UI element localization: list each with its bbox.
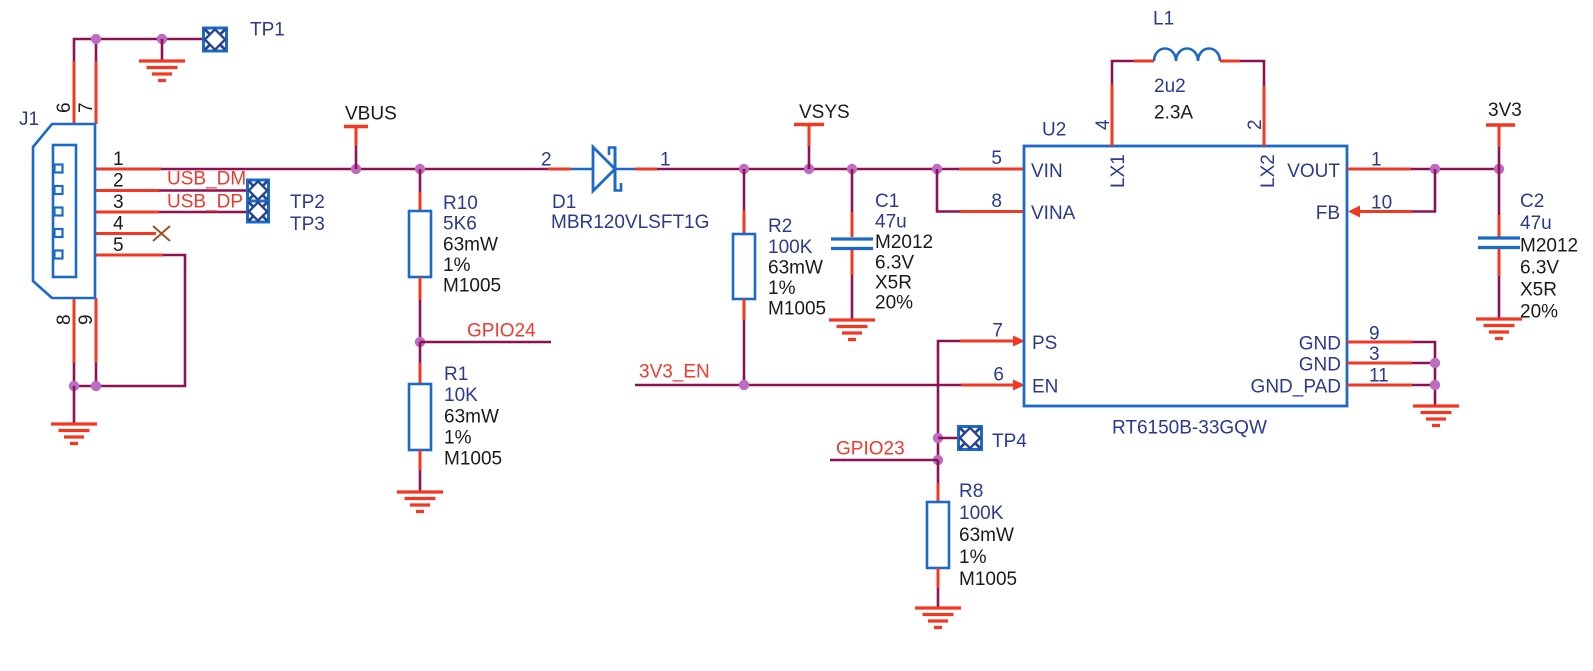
ground below J1 xyxy=(51,424,97,444)
pin number 2 J1 xyxy=(113,171,124,192)
net label VSYS xyxy=(799,102,850,123)
power flag 3V3 xyxy=(1486,125,1515,169)
svg-text:R8: R8 xyxy=(959,481,983,502)
svg-text:63mW: 63mW xyxy=(443,235,498,256)
value R1 M1005 xyxy=(444,449,502,470)
svg-text:4: 4 xyxy=(1093,119,1114,130)
pin 2 lead D1 xyxy=(548,168,571,171)
wire USB_DM to TP2 xyxy=(159,189,247,192)
wire R2 to 3V3_EN xyxy=(743,320,746,385)
wire R1 top segment xyxy=(419,342,422,363)
power flag VSYS xyxy=(794,125,824,170)
svg-text:3V3_EN: 3V3_EN xyxy=(639,362,710,383)
testpoint TP4 xyxy=(959,427,982,450)
net label 3V3 xyxy=(1488,100,1522,121)
pin number 1 U2 xyxy=(1371,150,1382,171)
label C2 xyxy=(1520,191,1544,212)
node junction TP1 ground tap xyxy=(157,34,167,44)
pin number 4 U2 xyxy=(1093,119,1114,130)
svg-text:8: 8 xyxy=(54,314,75,325)
value R10 5K6 xyxy=(443,214,477,235)
svg-text:63mW: 63mW xyxy=(959,525,1014,546)
pin 2 lead J1 xyxy=(96,189,159,192)
wire R10 top segment xyxy=(419,169,422,192)
wire LX1 to L1 xyxy=(1112,61,1134,84)
node junction GPIO23 xyxy=(933,455,943,465)
svg-text:MBR120VLSFT1G: MBR120VLSFT1G xyxy=(551,212,709,233)
svg-text:X5R: X5R xyxy=(875,273,912,294)
svg-text:5: 5 xyxy=(991,148,1002,169)
wire EN down to TP4/GPIO23 xyxy=(937,385,940,460)
pin name EN xyxy=(1032,377,1058,398)
value R2 M1005 xyxy=(768,299,826,320)
svg-text:6.3V: 6.3V xyxy=(875,253,914,274)
svg-text:M1005: M1005 xyxy=(443,276,501,297)
ground below R8 xyxy=(915,608,961,628)
node junction R2 top xyxy=(739,164,749,174)
pin 5 lead J1 xyxy=(96,254,163,257)
svg-text:2.3A: 2.3A xyxy=(1154,103,1193,124)
svg-text:9: 9 xyxy=(76,314,97,325)
ground below C1 xyxy=(829,320,875,340)
svg-text:VBUS: VBUS xyxy=(345,104,397,125)
net label GPIO24 xyxy=(467,321,536,342)
pin number 8 U2 xyxy=(991,191,1002,212)
svg-text:2u2: 2u2 xyxy=(1154,76,1186,97)
pin 7 lead U2 PS with arrow xyxy=(960,336,1025,347)
node junction GND pin11 xyxy=(1430,380,1440,390)
svg-text:100K: 100K xyxy=(959,503,1004,524)
net label VBUS xyxy=(345,104,397,125)
svg-text:C1: C1 xyxy=(875,191,899,212)
testpoint TP2 xyxy=(248,180,269,201)
pin number 1 J1 xyxy=(113,149,124,170)
net label USB_DM xyxy=(167,169,246,190)
pin name LX1 xyxy=(1108,154,1129,188)
svg-text:PS: PS xyxy=(1032,333,1057,354)
svg-text:4: 4 xyxy=(113,214,124,235)
pin lead C2 bottom xyxy=(1498,249,1501,276)
value D1 MBR120VLSFT1G xyxy=(551,212,709,233)
svg-text:USB_DP: USB_DP xyxy=(167,192,243,213)
node junction FB tap xyxy=(1430,164,1440,174)
value R10 M1005 xyxy=(443,276,501,297)
pin number 11 U2 xyxy=(1369,366,1389,387)
pin lead L1 right xyxy=(1220,60,1240,63)
svg-text:LX1: LX1 xyxy=(1108,154,1129,188)
resistor R10 xyxy=(409,211,431,277)
svg-text:M2012: M2012 xyxy=(1520,236,1578,257)
svg-text:GPIO23: GPIO23 xyxy=(836,439,905,460)
pin number 3 U2 xyxy=(1369,344,1380,365)
svg-text:EN: EN xyxy=(1032,377,1058,398)
value C2 47u xyxy=(1520,213,1552,234)
net label 3V3_EN xyxy=(639,362,710,383)
node junction TP4 xyxy=(933,433,943,443)
pin 1 lead D1 xyxy=(635,168,657,171)
svg-text:TP2: TP2 xyxy=(290,192,325,213)
pin 4 lead J1 xyxy=(96,232,156,235)
svg-text:VSYS: VSYS xyxy=(799,102,850,123)
svg-text:1%: 1% xyxy=(768,278,796,299)
svg-text:2: 2 xyxy=(541,150,552,171)
svg-text:GPIO24: GPIO24 xyxy=(467,321,536,342)
value R10 63mW xyxy=(443,235,498,256)
value C2 6.3V xyxy=(1520,258,1559,279)
capacitor C1 xyxy=(831,239,873,249)
value R8 63mW xyxy=(959,525,1014,546)
testpoint TP1 xyxy=(204,28,227,51)
label TP4 xyxy=(992,431,1027,452)
connector J1 body xyxy=(33,124,95,298)
value U2 RT6150B-33GQW xyxy=(1112,418,1267,439)
pin 4 lead U2 LX1 xyxy=(1111,84,1114,146)
pin lead C1 bottom xyxy=(851,250,854,275)
svg-text:TP3: TP3 xyxy=(290,214,325,235)
svg-text:LX2: LX2 xyxy=(1258,154,1279,188)
svg-text:VOUT: VOUT xyxy=(1287,161,1340,182)
svg-text:6: 6 xyxy=(54,102,75,113)
pin name GND 9 xyxy=(1299,334,1341,355)
wire VOUT to 3V3 xyxy=(1411,168,1499,171)
value L1 2.3A xyxy=(1154,103,1193,124)
wire C2 top segment xyxy=(1498,169,1501,215)
svg-text:3: 3 xyxy=(1369,344,1380,365)
pin number 3 J1 xyxy=(113,192,124,213)
svg-text:R1: R1 xyxy=(444,364,468,385)
svg-text:VIN: VIN xyxy=(1031,161,1063,182)
value L1 2u2 xyxy=(1154,76,1186,97)
label D1 xyxy=(552,192,576,213)
ground below U2 GND pins xyxy=(1413,406,1459,426)
pin 2 lead U2 LX2 xyxy=(1263,86,1266,146)
pin 8 lead U2 VINA xyxy=(960,210,1024,213)
pin 8 lead J1 xyxy=(73,298,76,363)
pin number 5 U2 xyxy=(991,148,1002,169)
pin 6 lead U2 EN with arrow xyxy=(961,380,1025,391)
svg-text:63mW: 63mW xyxy=(768,258,823,279)
svg-text:3V3: 3V3 xyxy=(1488,100,1522,121)
connector J1 contact pads xyxy=(55,165,63,259)
pin lead R10 bottom xyxy=(419,277,422,300)
svg-text:47u: 47u xyxy=(1520,213,1552,234)
pin 1 lead J1 xyxy=(96,168,161,171)
pin name GND_PAD xyxy=(1251,377,1341,398)
pin lead R1 top xyxy=(419,363,422,385)
pin number 2 U2 xyxy=(1245,119,1266,130)
wire R10 to GPIO24 node xyxy=(419,300,422,342)
value C2 M2012 xyxy=(1520,236,1578,257)
svg-text:TP1: TP1 xyxy=(250,20,285,41)
wire C1 to ground xyxy=(851,275,854,320)
value R8 1% xyxy=(959,547,987,568)
node junction VBUS stub xyxy=(351,164,361,174)
svg-text:M1005: M1005 xyxy=(768,299,826,320)
svg-text:1: 1 xyxy=(660,150,671,171)
svg-text:7: 7 xyxy=(76,102,97,113)
svg-text:RT6150B-33GQW: RT6150B-33GQW xyxy=(1112,418,1267,439)
wire PS branch xyxy=(938,341,960,385)
svg-text:TP4: TP4 xyxy=(992,431,1027,452)
wire R8 to ground xyxy=(937,588,940,608)
value C2 20% xyxy=(1520,302,1558,323)
value C1 X5R xyxy=(875,273,912,294)
svg-text:M1005: M1005 xyxy=(959,569,1017,590)
no-connect cross on pin 4 xyxy=(153,226,170,241)
pin name LX2 xyxy=(1258,154,1279,188)
pin number 5 J1 xyxy=(113,235,124,256)
svg-text:L1: L1 xyxy=(1153,9,1174,30)
pin name VINA xyxy=(1031,203,1076,224)
pin 3 lead J1 xyxy=(96,211,159,214)
ground below R1 xyxy=(397,492,443,512)
resistor R8 xyxy=(927,502,949,568)
label R1 xyxy=(444,364,468,385)
value R1 63mW xyxy=(444,407,499,428)
label L1 xyxy=(1153,9,1174,30)
label TP1 xyxy=(250,20,285,41)
wire GPIO24 label stub xyxy=(420,341,551,344)
wire R8 top segment xyxy=(937,460,940,483)
svg-text:GND: GND xyxy=(1299,334,1341,355)
svg-text:2: 2 xyxy=(113,171,124,192)
node junction GPIO24 xyxy=(415,337,425,347)
pin number 6 U2 xyxy=(993,365,1004,386)
pin number 1 D1 xyxy=(660,150,671,171)
svg-text:R10: R10 xyxy=(443,193,478,214)
pin lead R2 top xyxy=(743,210,746,235)
svg-text:11: 11 xyxy=(1369,366,1389,387)
pin 5 lead U2 VIN xyxy=(959,168,1024,171)
pin name FB xyxy=(1316,203,1340,224)
pin 6 lead J1 xyxy=(73,61,76,124)
value C2 X5R xyxy=(1520,280,1557,301)
power flag VBUS xyxy=(344,127,368,170)
pin number 2 D1 xyxy=(541,150,552,171)
label U2 xyxy=(1042,120,1066,141)
node junction VIN branch xyxy=(932,164,942,174)
svg-text:47u: 47u xyxy=(875,212,907,233)
net label USB_DP xyxy=(167,192,243,213)
net label GPIO23 xyxy=(836,439,905,460)
wire GPIO23 label stub xyxy=(830,459,938,462)
svg-text:FB: FB xyxy=(1316,203,1340,224)
svg-text:M2012: M2012 xyxy=(875,232,933,253)
svg-text:63mW: 63mW xyxy=(444,407,499,428)
wire C1 top segment xyxy=(851,169,854,212)
value C1 47u xyxy=(875,212,907,233)
svg-text:1%: 1% xyxy=(959,547,987,568)
pin number 7 U2 xyxy=(992,321,1003,342)
wire FB loop xyxy=(1412,169,1435,212)
wire pin9 lower segment xyxy=(95,363,98,386)
pin number 9 J1 xyxy=(76,314,97,325)
wire LX2 to L1 xyxy=(1240,61,1264,86)
pin number 7 J1 xyxy=(76,102,97,113)
wire VBUS net top-left (J1 pins 6,7 to TP1) xyxy=(74,39,203,62)
wire USB_DP to TP3 xyxy=(159,211,247,214)
svg-text:6: 6 xyxy=(993,365,1004,386)
label J1 xyxy=(19,109,39,130)
svg-text:C2: C2 xyxy=(1520,191,1544,212)
svg-text:9: 9 xyxy=(1369,324,1380,345)
wire 3V3_EN net xyxy=(635,384,961,387)
pin name GND 3 xyxy=(1299,355,1341,376)
svg-text:VINA: VINA xyxy=(1031,203,1076,224)
svg-text:10: 10 xyxy=(1371,193,1392,214)
svg-text:R2: R2 xyxy=(768,216,792,237)
svg-text:10K: 10K xyxy=(444,385,478,406)
svg-text:5: 5 xyxy=(113,235,124,256)
wire ground stub below J1 xyxy=(73,386,76,424)
wire bottom loop from J1 pin5 xyxy=(74,255,185,386)
wire main VBUS bus xyxy=(161,168,548,171)
node junction pin8/ground xyxy=(69,381,79,391)
svg-text:2: 2 xyxy=(1245,119,1266,130)
value R10 1% xyxy=(443,255,471,276)
svg-text:M1005: M1005 xyxy=(444,449,502,470)
svg-text:6.3V: 6.3V xyxy=(1520,258,1559,279)
svg-text:D1: D1 xyxy=(552,192,576,213)
value R2 1% xyxy=(768,278,796,299)
resistor R2 xyxy=(733,234,755,299)
node junction pin9/loop xyxy=(91,381,101,391)
pin lead L1 left xyxy=(1134,60,1154,63)
wire R2 top segment xyxy=(743,169,746,210)
svg-text:USB_DM: USB_DM xyxy=(167,169,246,190)
pin 7 lead J1 xyxy=(95,61,98,124)
ground below C2 xyxy=(1476,319,1522,339)
node junction C1 tap xyxy=(847,164,857,174)
label TP3 xyxy=(290,214,325,235)
pin number 8 J1 xyxy=(54,314,75,325)
value C1 6.3V xyxy=(875,253,914,274)
svg-text:5K6: 5K6 xyxy=(443,214,477,235)
connector J1 inner tongue xyxy=(53,145,76,277)
inductor L1 xyxy=(1154,49,1220,62)
capacitor C2 xyxy=(1478,238,1520,248)
svg-text:20%: 20% xyxy=(1520,302,1558,323)
svg-text:3: 3 xyxy=(113,192,124,213)
pin lead R2 bottom xyxy=(743,299,746,320)
svg-text:X5R: X5R xyxy=(1520,280,1557,301)
svg-text:20%: 20% xyxy=(875,293,913,314)
node junction VSYS stub xyxy=(804,164,814,174)
value C1 M2012 xyxy=(875,232,933,253)
node junction C2/3V3 xyxy=(1494,164,1504,174)
node junction pin7/top wire xyxy=(91,34,101,44)
svg-text:1: 1 xyxy=(113,149,124,170)
wire R1 to ground xyxy=(419,470,422,492)
svg-text:8: 8 xyxy=(991,191,1002,212)
pin lead C2 top xyxy=(1498,215,1501,237)
wire VIN/VINA branch vertical xyxy=(937,169,960,212)
label R2 xyxy=(768,216,792,237)
pin name VOUT xyxy=(1287,161,1340,182)
pin 3 lead U2 GND xyxy=(1347,362,1412,365)
pin lead R8 bottom xyxy=(937,568,940,588)
wire ground stub at TP1 xyxy=(161,39,164,61)
svg-text:U2: U2 xyxy=(1042,120,1066,141)
label TP2 xyxy=(290,192,325,213)
pin name VIN xyxy=(1031,161,1063,182)
wire GND pins to ground xyxy=(1412,342,1435,406)
pin lead R1 bottom xyxy=(419,450,422,470)
pin number 6 J1 xyxy=(54,102,75,113)
svg-text:GND: GND xyxy=(1299,355,1341,376)
label R8 xyxy=(959,481,983,502)
pin 9 lead U2 GND xyxy=(1347,341,1412,344)
diode D1 MBR120VLSFT1G xyxy=(571,147,635,191)
value R2 100K xyxy=(768,237,813,258)
resistor R1 xyxy=(409,384,431,450)
svg-text:7: 7 xyxy=(992,321,1003,342)
pin number 4 J1 xyxy=(113,214,124,235)
pin 9 lead J1 xyxy=(95,298,98,363)
ground at TP1 xyxy=(139,61,185,81)
pin name PS xyxy=(1032,333,1057,354)
svg-text:1%: 1% xyxy=(443,255,471,276)
pin lead C1 top xyxy=(851,212,854,237)
pin 11 lead U2 GND_PAD xyxy=(1347,384,1412,387)
wire C2 to ground xyxy=(1498,276,1501,319)
value C1 20% xyxy=(875,293,913,314)
svg-text:1%: 1% xyxy=(444,428,472,449)
svg-text:J1: J1 xyxy=(19,109,39,130)
svg-text:GND_PAD: GND_PAD xyxy=(1251,377,1341,398)
IC U2 RT6150B-33GQW body xyxy=(1024,146,1347,406)
pin number 9 U2 xyxy=(1369,324,1380,345)
value R1 10K xyxy=(444,385,478,406)
svg-text:1: 1 xyxy=(1371,150,1382,171)
pin number 10 U2 xyxy=(1371,193,1392,214)
node junction GND pin3 xyxy=(1430,358,1440,368)
node junction R10 tap xyxy=(415,164,425,174)
pin 10 lead U2 FB with arrow xyxy=(1348,206,1412,218)
pin 1 lead U2 VOUT xyxy=(1347,168,1411,171)
value R1 1% xyxy=(444,428,472,449)
wire TP4 stub xyxy=(938,437,958,440)
node junction R2 bottom on 3V3_EN xyxy=(739,380,749,390)
testpoint TP3 xyxy=(248,201,269,222)
label R10 xyxy=(443,193,478,214)
svg-text:100K: 100K xyxy=(768,237,813,258)
wire VSYS bus xyxy=(657,168,959,171)
pin lead R8 top xyxy=(937,483,940,503)
pin lead R10 top xyxy=(419,192,422,212)
value R8 M1005 xyxy=(959,569,1017,590)
value R8 100K xyxy=(959,503,1004,524)
label C1 xyxy=(875,191,899,212)
value R2 63mW xyxy=(768,258,823,279)
wire pin8 lower segment xyxy=(73,363,76,386)
